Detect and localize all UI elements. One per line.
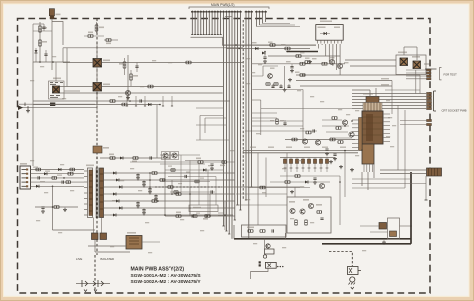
resistor R113	[88, 35, 93, 38]
transformer T551 core	[95, 168, 97, 219]
IC201 pin 7	[337, 40, 339, 43]
resistor R505	[70, 168, 75, 171]
bus A wire 9	[214, 11, 216, 35]
resistor R501	[36, 168, 41, 171]
wire y115 branch	[200, 116, 226, 119]
smudges sub box	[289, 201, 295, 203]
wire left cluster bottom	[33, 61, 70, 63]
transformer right stub 4	[104, 193, 111, 195]
wire y100 bus to x261	[252, 99, 261, 101]
secondary rail wire 7	[110, 214, 233, 216]
wire y31 left	[33, 30, 52, 32]
ic IC301 pin band	[363, 103, 382, 112]
wire mid row y139	[285, 139, 355, 141]
bus B wire 10	[251, 11, 253, 188]
wire drops x200 x205	[199, 116, 201, 141]
capacitor C322	[313, 129, 314, 132]
diode D141	[148, 103, 151, 106]
earth ground symbol	[350, 277, 355, 282]
svg-text:CRT SOCKET PWB: CRT SOCKET PWB	[442, 109, 467, 113]
resistor R112	[106, 39, 111, 42]
label RL MDA1	[381, 78, 389, 79]
wires from bus B tops	[223, 45, 240, 49]
ground g202	[308, 60, 312, 64]
resistor R132	[133, 157, 138, 160]
wire to CRT pin 2	[352, 96, 426, 98]
wire x420 vertical	[419, 75, 421, 94]
resistor R121	[123, 62, 126, 68]
transformer left stub 2	[84, 176, 88, 178]
thermistor pads	[259, 261, 261, 263]
wire y89 mid	[252, 89, 303, 91]
jack box J601	[348, 267, 359, 275]
capacitor on rail 5	[136, 203, 139, 204]
relay RL551	[126, 236, 142, 250]
secondary rail wire 1	[110, 172, 235, 174]
diode on rail 5	[116, 200, 119, 203]
ic IC301 left pin strip	[359, 118, 363, 151]
transformer right stub 3	[104, 186, 111, 188]
resistor R203	[296, 55, 301, 58]
CRT socket pin 6	[427, 107, 432, 109]
parts in sub box	[317, 211, 322, 214]
capacitor on rail 4	[154, 196, 157, 197]
power transistor Q511	[400, 58, 408, 66]
ground row mid	[313, 181, 317, 185]
vertical interconnects secondary	[149, 173, 151, 187]
secondary rail wire 2	[110, 179, 235, 181]
bus A wire 10	[217, 11, 219, 35]
diode D201	[255, 47, 258, 50]
label IC301	[363, 93, 373, 95]
wire EB51 pin 3	[31, 177, 85, 179]
ic IC301 lower body	[362, 144, 374, 164]
wire y108 mid right	[261, 108, 352, 110]
IC301 right pin 8	[383, 140, 390, 142]
wire left vertical drop	[32, 62, 34, 166]
bus A wire 8	[211, 11, 213, 35]
wire x261 vertical	[260, 100, 262, 135]
transformer right stub 1	[104, 172, 111, 174]
wire from bus C right	[257, 24, 301, 27]
rail junction dots	[149, 172, 151, 174]
smudge labels top mid	[252, 42, 257, 43]
capacitor C141	[140, 99, 141, 102]
isolation dashed line vertical center	[242, 20, 244, 200]
box around Q511 Q512	[396, 55, 426, 75]
IC301 right pin 6	[383, 133, 390, 135]
secondary rail wire 6	[110, 207, 235, 209]
IC201 pin 2	[320, 40, 322, 43]
bus B wire 3	[228, 11, 230, 235]
parts near border	[25, 103, 28, 110]
CRT socket pin 3	[427, 98, 432, 100]
wire to CRT pin 1	[352, 93, 426, 95]
bus elbow wires to box	[218, 212, 224, 214]
bold rail y51.5	[287, 51, 318, 53]
IC301 right pin 1	[383, 113, 390, 115]
EB51 pin 1	[22, 169, 27, 171]
IC201 pin 4	[327, 40, 329, 43]
bus B wire 6	[237, 11, 239, 206]
wires to B601	[380, 169, 427, 171]
resistor on rail 2	[160, 179, 165, 182]
capacitor on rail 6	[142, 210, 145, 211]
resistor R206	[322, 62, 327, 65]
resistor on rail 1	[152, 172, 157, 175]
diode on rail 4	[113, 193, 116, 196]
FOR TEST pin 3	[427, 75, 432, 77]
diode bridge D552	[100, 233, 107, 240]
bus A wire 1	[191, 11, 193, 35]
capacitor C102	[42, 27, 45, 28]
transistor Q302	[349, 132, 354, 137]
diode D503	[36, 185, 39, 188]
transformer T551 left winding	[88, 168, 93, 218]
wire y48	[239, 48, 310, 50]
schematic dashed boundary	[18, 19, 431, 294]
resistor on rail 5	[152, 200, 157, 203]
ic IC301 bottom pins	[363, 164, 365, 172]
wire x398 vertical	[397, 105, 399, 170]
wire PC101 right	[102, 62, 244, 64]
bus group B tie	[225, 16, 232, 18]
box around RL101	[49, 81, 65, 99]
transformer right stub 7	[104, 214, 111, 216]
vertical resistor bank item 4	[301, 158, 304, 173]
wire drop to degauss	[264, 239, 266, 249]
resistor R122	[130, 74, 133, 80]
ic IC201 inner labels	[318, 27, 326, 29]
transformer left stub 5	[84, 192, 88, 194]
relay coil box	[265, 249, 275, 254]
spark gap SG551	[76, 283, 110, 285]
wire from B101 down	[51, 19, 53, 70]
resistor R202	[285, 47, 290, 50]
svg-text:MAIN PWB(1/2): MAIN PWB(1/2)	[211, 3, 234, 7]
resistor R504	[66, 181, 71, 184]
wire EB51 pin 1	[31, 169, 85, 171]
wire y194 mid	[236, 193, 287, 195]
EB51 pin 2	[22, 173, 27, 175]
vertical resistor bank item 1	[283, 158, 286, 173]
wire y162	[130, 161, 235, 163]
isolation dashed line bottom segment	[94, 255, 96, 293]
resistor on rail 3	[168, 186, 173, 189]
wire x415 down	[415, 70, 417, 94]
wire drop x56	[55, 63, 57, 82]
IC201 pin 8	[340, 40, 342, 43]
wires around IC301 left	[322, 119, 342, 121]
parts above RL101	[50, 83, 63, 85]
wires right mid area	[352, 178, 411, 180]
label RL MDA2	[381, 84, 389, 85]
IC301 right pin 4	[383, 125, 390, 127]
bus C wire 1	[256, 11, 258, 27]
bracket MAIN PWB(1/2)	[189, 7, 269, 9]
wire drop x63	[62, 48, 64, 63]
wire degauss return	[251, 268, 268, 279]
wire x287 vertical	[286, 153, 288, 197]
vertical drops from IC201	[319, 44, 341, 75]
transformer right stub 6	[104, 207, 111, 209]
resistor R131	[110, 157, 115, 160]
connector B601	[427, 168, 442, 176]
wire elbow x234	[233, 225, 235, 239]
resistor R101	[39, 22, 41, 62]
IC301 left pin 5	[352, 135, 359, 137]
label B101	[56, 14, 61, 16]
wire y157 bus	[280, 157, 335, 159]
transistor Q211	[268, 74, 273, 79]
diode D502	[58, 168, 61, 171]
bus A wire 7	[208, 11, 210, 35]
extra CRT pin 1	[427, 119, 432, 121]
secondary rail wire 4	[110, 193, 235, 195]
transistor Q332	[263, 255, 266, 258]
diode block D601	[379, 223, 387, 230]
vertical resistor bank item 6	[313, 158, 316, 173]
capacitor C201	[263, 57, 266, 58]
bold rail lower	[234, 238, 411, 240]
ground g201	[288, 78, 292, 82]
transformer left stub 7	[84, 203, 88, 205]
resistor R303	[338, 141, 343, 144]
IC301 right pin 2	[383, 117, 390, 119]
capacitor on rail 1	[136, 175, 139, 176]
bus B wire 8	[245, 11, 247, 201]
wire x266 vertical	[265, 158, 267, 198]
wire x303 vertical	[302, 90, 304, 142]
wire IC301 top	[352, 88, 376, 97]
misc tiny labels	[246, 58, 250, 59]
wire EB51 pin 4	[31, 181, 85, 183]
wire x426 vertical	[425, 176, 427, 200]
parts y160-168	[198, 161, 203, 164]
mid grid vertical wire x181	[180, 155, 182, 192]
bus A wire 2	[194, 11, 196, 35]
transformer left stub 1	[84, 170, 88, 172]
parts row y216	[176, 215, 181, 218]
wire vertical x157	[156, 105, 158, 158]
bus A wire 5	[203, 11, 205, 35]
transformer T551 right winding	[100, 168, 104, 218]
transistor Q301	[342, 120, 347, 125]
isolation dashed line bottom jog	[329, 252, 352, 267]
wire y187	[248, 187, 310, 189]
contact dots	[277, 266, 278, 267]
wire PC102 left	[60, 86, 93, 88]
bus A wire 3	[197, 11, 199, 35]
wire y63 long	[252, 63, 345, 65]
transistor Q304	[315, 140, 320, 145]
cluster at dashed line bottom	[93, 146, 102, 153]
sub box2	[242, 225, 287, 237]
stub end y106 4	[162, 96, 164, 106]
label RL551	[127, 232, 136, 234]
resistor R142	[122, 103, 127, 106]
power transistor Q512	[413, 61, 421, 69]
node junction	[39, 61, 41, 63]
transistor Q331	[266, 244, 270, 248]
transformer left stub 3	[84, 181, 88, 183]
mid grid rows	[160, 154, 200, 156]
stub end y106 2	[135, 96, 137, 106]
wire y24 left	[33, 23, 44, 25]
transistor Q101	[125, 90, 130, 95]
photocoupler PC102	[93, 83, 102, 92]
capacitor C101	[44, 54, 47, 55]
wire bus elbow right top	[236, 44, 316, 46]
resistor R322	[306, 131, 311, 134]
resistor R503	[54, 206, 59, 209]
label RL101	[53, 78, 61, 80]
wire y86 long	[300, 85, 392, 87]
wire y80 long	[296, 80, 392, 82]
IC201 pin 6	[334, 40, 336, 43]
wire y205 mid	[236, 204, 287, 206]
capacitor C503	[38, 176, 39, 179]
resistor R207	[300, 74, 305, 77]
transistor Q141	[163, 153, 168, 158]
diode on rail 3	[119, 186, 122, 189]
vertical drops below IC301	[362, 164, 374, 190]
wire row y216	[165, 215, 235, 217]
transistor Q201	[329, 59, 334, 64]
svg-text:LIVE: LIVE	[76, 257, 82, 261]
resistor R102	[39, 40, 42, 46]
crt socket bracket	[434, 91, 437, 111]
diode D101	[35, 50, 38, 53]
vertical resistor bank item 3	[295, 158, 298, 173]
wire mid row y121	[252, 120, 303, 122]
label IC201	[320, 21, 332, 23]
transformer left stub 8	[84, 209, 88, 211]
IC301 left pin 7	[352, 142, 359, 144]
transistor Q303	[302, 139, 307, 144]
wire row y158	[100, 157, 170, 159]
EB51 pin 4	[22, 181, 27, 183]
diode D501	[44, 172, 47, 175]
sub box mid bottom	[189, 205, 218, 212]
EB51 pin 3	[22, 177, 27, 179]
ic IC301 top tab	[366, 97, 379, 103]
wire EB51 pin 2	[31, 173, 85, 175]
svg-text:ISOLATED: ISOLATED	[100, 257, 114, 261]
IC301 left pin 2	[352, 123, 359, 125]
resistor R211	[266, 83, 270, 86]
transformer left stub 4	[84, 187, 88, 189]
resistor R321	[276, 119, 279, 124]
relay RL101	[53, 86, 60, 93]
capacitor on rail 2	[142, 182, 145, 183]
parts below sub box	[193, 215, 197, 218]
ground g301	[329, 160, 333, 164]
IC301 left pin 4	[352, 131, 359, 133]
diode D202	[262, 52, 265, 55]
labels Q511 Q512	[398, 52, 407, 54]
bus C wire 3	[262, 11, 264, 24]
resistor R205	[300, 62, 305, 65]
wire row y207	[35, 206, 78, 208]
wire vertical x165	[164, 158, 166, 216]
wire x295 vertical	[294, 188, 296, 198]
EB51 pin 5	[22, 185, 27, 187]
photocoupler PC101	[93, 59, 102, 68]
ground g284	[283, 88, 287, 92]
connector EB51	[20, 166, 31, 189]
smudges row y216	[176, 212, 181, 214]
wire y176	[280, 175, 340, 177]
wire x340 vertical	[339, 176, 341, 225]
capacitor C501	[62, 181, 63, 184]
transformer winding rungs	[89, 174, 104, 211]
CRT socket pin 2	[427, 95, 432, 97]
wires bus B right branches	[252, 112, 277, 114]
capacitor C302	[333, 154, 336, 155]
wire y48 collector	[63, 47, 243, 49]
diode on rail 6	[119, 207, 122, 210]
arrow below earth	[351, 287, 354, 289]
bus C wire 4	[265, 11, 267, 23]
ground g302	[339, 165, 343, 169]
transistor Q202	[337, 63, 342, 68]
mid grid vertical wire x190	[189, 161, 191, 217]
wire y101 long	[33, 100, 230, 102]
resistor R312	[330, 138, 335, 141]
spark gap arrows	[84, 290, 97, 292]
ground left cluster	[26, 109, 30, 113]
stub end y106 5	[171, 96, 173, 106]
resistor R502	[52, 177, 57, 180]
IC201 pin 1	[317, 40, 319, 43]
ic IC301 main body	[362, 111, 383, 144]
IC201 pin 5	[330, 40, 332, 43]
wire y107 left edge	[19, 107, 97, 109]
CRT socket pin 1	[427, 92, 432, 94]
diode D131	[120, 157, 123, 160]
wire x284 vertical	[284, 66, 286, 88]
choke L501	[68, 172, 73, 175]
mid grid vertical wire x208	[207, 170, 209, 216]
extra CRT pin 2	[427, 123, 432, 125]
svg-text:SGW-1002A-M2 : AV-30W475/Y: SGW-1002A-M2 : AV-30W475/Y	[131, 279, 202, 285]
wires bus B left branches	[196, 107, 224, 109]
wire to CRT pin 4	[352, 102, 426, 104]
transistor Q323	[308, 203, 313, 208]
wire x405 vertical	[404, 110, 406, 188]
FOR TEST pin 2	[427, 72, 432, 74]
wire RL101 out	[64, 90, 80, 92]
wire center-left vertical	[127, 55, 129, 101]
IC301 left pin 1	[352, 119, 359, 121]
capacitor C121	[135, 66, 138, 67]
for test top tick	[425, 68, 437, 70]
svg-text:MAIN PWB ASS'Y(2/2): MAIN PWB ASS'Y(2/2)	[131, 267, 185, 273]
capacitor C502	[41, 207, 44, 208]
parts below RL101	[50, 96, 60, 98]
vertical resistor bank item 5	[307, 158, 310, 173]
parts rows y176-190	[295, 175, 300, 178]
wire to CRT pin 6	[352, 108, 426, 110]
CRT socket pin 4	[427, 101, 432, 103]
ground D601	[382, 241, 386, 245]
wire y66 elbow	[252, 66, 278, 76]
bus A wire 6	[205, 11, 207, 35]
stub end y106 3	[144, 96, 146, 106]
resistor R302	[336, 127, 341, 130]
diode on rail 2	[116, 179, 119, 182]
